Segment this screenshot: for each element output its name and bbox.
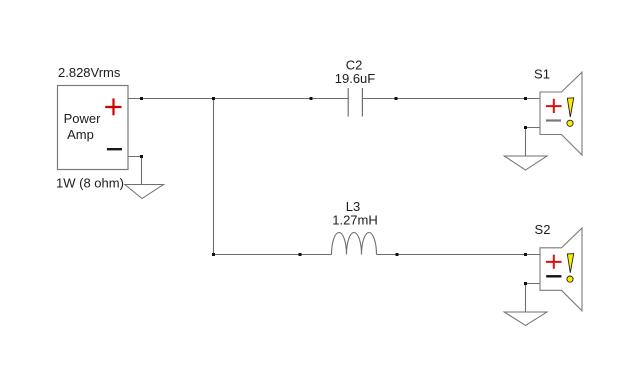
capacitor C2 [348, 88, 362, 117]
svg-text:S1: S1 [534, 67, 550, 82]
svg-text:Power: Power [64, 111, 102, 126]
wire: branch vertical [213, 99, 215, 255]
plus terminal of power amp [105, 98, 121, 115]
speaker S1 [540, 72, 582, 155]
inductor L3 [332, 233, 377, 255]
ground (power amp) [125, 185, 164, 199]
speaker S2 [540, 228, 582, 311]
wire: C2 right pin to S1 [363, 98, 541, 100]
svg-text:2.828Vrms: 2.828Vrms [58, 65, 121, 80]
svg-text:1.27mH: 1.27mH [332, 213, 378, 228]
power amp V1 box [58, 86, 129, 170]
wire: amp + to C2 left pin [128, 98, 348, 100]
svg-text:Amp: Amp [67, 127, 94, 142]
wire: branch to L3 [214, 254, 332, 256]
svg-text:1W (8 ohm): 1W (8 ohm) [56, 176, 124, 191]
wire: amp - to ground [128, 157, 142, 185]
svg-text:19.6uF: 19.6uF [335, 71, 376, 86]
svg-text:S2: S2 [535, 222, 551, 237]
wire: S2 - to ground [526, 284, 541, 313]
wire: S1 - to ground [526, 128, 541, 157]
wire: L3 to S2 [377, 254, 541, 256]
minus terminal of power amp [107, 148, 122, 150]
ground (S1) [504, 156, 547, 170]
ground (S2) [504, 312, 547, 325]
